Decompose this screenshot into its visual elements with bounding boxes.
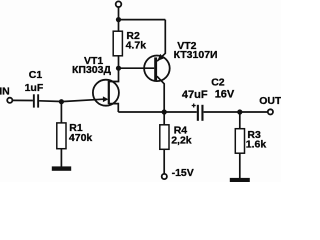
svg-text:C1: C1 — [29, 69, 43, 81]
svg-text:2,2k: 2,2k — [171, 134, 192, 146]
svg-text:4.7k: 4.7k — [126, 39, 147, 51]
svg-text:470k: 470k — [69, 132, 93, 144]
svg-text:IN: IN — [0, 86, 10, 98]
svg-text:КП303Д: КП303Д — [72, 64, 111, 76]
svg-text:КТ3107И: КТ3107И — [174, 49, 218, 61]
svg-text:-15V: -15V — [172, 167, 194, 179]
svg-text:C2: C2 — [211, 76, 225, 88]
svg-text:OUT: OUT — [259, 95, 281, 107]
svg-text:16V: 16V — [215, 89, 235, 101]
svg-text:1.6k: 1.6k — [246, 139, 267, 151]
svg-text:47uF: 47uF — [182, 89, 208, 101]
svg-text:1uF: 1uF — [25, 82, 44, 94]
